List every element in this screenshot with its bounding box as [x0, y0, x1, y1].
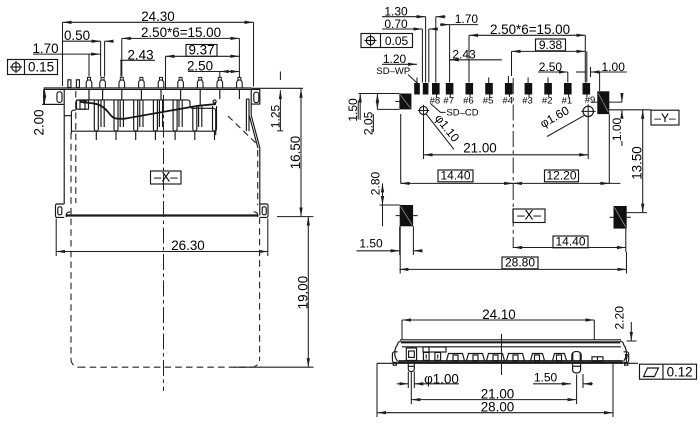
svg-text:28.80: 28.80 [505, 256, 535, 270]
svg-text:21.00: 21.00 [463, 141, 497, 156]
svg-text:1.70: 1.70 [455, 12, 479, 26]
svg-text:1.50: 1.50 [359, 236, 383, 250]
svg-text:–X–: –X– [517, 208, 541, 223]
svg-text:–X–: –X– [154, 169, 178, 184]
svg-text:0.12: 0.12 [667, 364, 693, 379]
svg-text:2.80: 2.80 [369, 171, 383, 195]
svg-text:#8: #8 [430, 96, 441, 107]
svg-text:14.40: 14.40 [555, 235, 585, 249]
svg-text:9.38: 9.38 [539, 38, 563, 52]
svg-text:2.20: 2.20 [613, 306, 627, 330]
svg-text:2.00: 2.00 [32, 109, 47, 135]
svg-text:#6: #6 [463, 96, 474, 107]
svg-text:#5: #5 [483, 96, 494, 107]
svg-text:0.05: 0.05 [385, 34, 409, 48]
svg-text:#9: #9 [585, 95, 596, 106]
svg-text:26.30: 26.30 [171, 238, 205, 253]
svg-text:#4: #4 [503, 96, 514, 107]
svg-text:9.37: 9.37 [188, 42, 214, 57]
svg-text:1.50: 1.50 [534, 371, 558, 385]
svg-text:14.40: 14.40 [440, 169, 470, 183]
svg-text:24.30: 24.30 [141, 9, 175, 24]
svg-text:12.20: 12.20 [546, 169, 576, 183]
svg-text:#3: #3 [522, 96, 533, 107]
svg-text:#7: #7 [443, 96, 454, 107]
svg-text:–Y–: –Y– [654, 111, 676, 125]
svg-text:SD–CD: SD–CD [446, 107, 478, 118]
svg-text:0.15: 0.15 [28, 60, 54, 75]
svg-text:1.00: 1.00 [610, 117, 624, 141]
svg-text:#2: #2 [542, 96, 553, 107]
svg-text:SD–WP: SD–WP [376, 66, 410, 77]
